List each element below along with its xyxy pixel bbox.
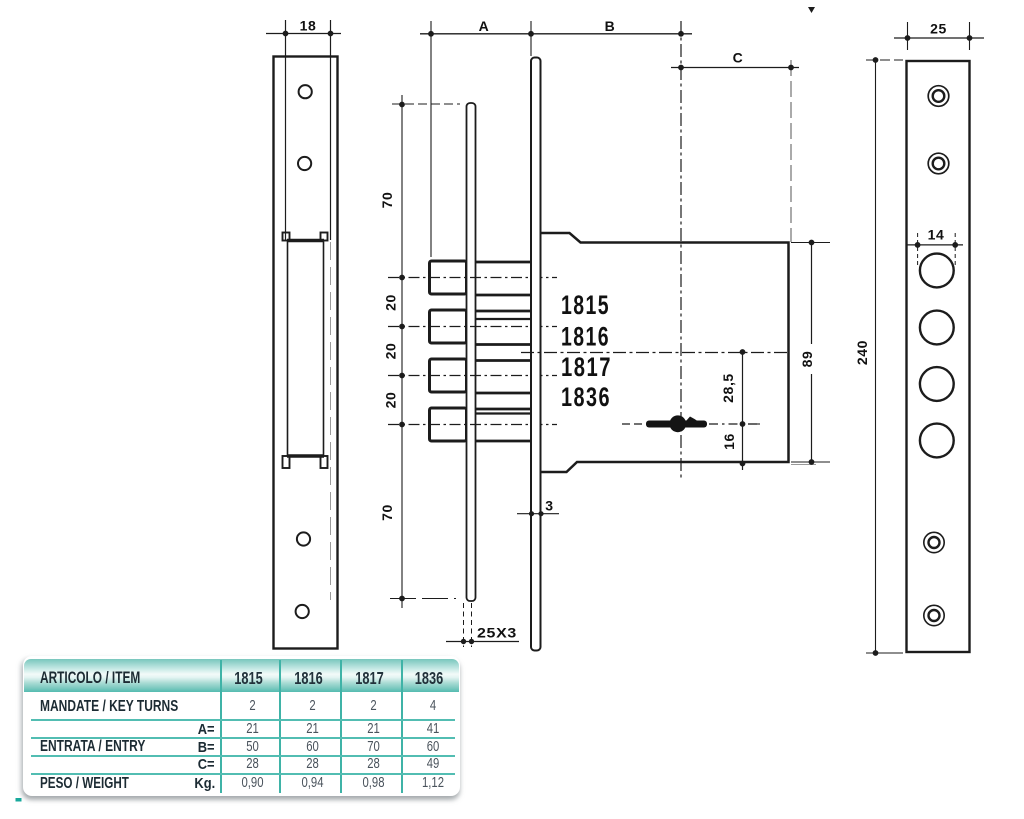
dimension 3 tick line [517, 513, 559, 515]
keyhole horizontal centerline [622, 423, 757, 425]
strike cutout bottom-right tab [321, 456, 328, 468]
right plate countersunk hole bottom2 [924, 605, 944, 625]
dimension 28,5 and 16 extension line [742, 352, 744, 470]
tick dots 28,5 and 16 [740, 349, 746, 466]
left plate screw hole top2 [298, 157, 311, 170]
dimension 18 line [266, 33, 341, 35]
sublabel C= [198, 756, 215, 773]
values row peso [229, 775, 275, 791]
lock body outline [541, 233, 789, 472]
right plate outline [907, 61, 970, 652]
column separator 2 [279, 660, 281, 793]
row label PESO [40, 775, 129, 793]
dimension 25x3 line [446, 641, 519, 643]
bolt 4 head [430, 408, 467, 441]
bolt 1 head [430, 261, 467, 294]
svg-text:70: 70 [379, 504, 395, 521]
svg-text:70: 70 [379, 192, 395, 209]
left faceplate outer plate [274, 57, 338, 649]
header number 1836 [408, 668, 450, 689]
dimension 240 ticks [866, 60, 903, 653]
left plate screw hole bottom2 [296, 605, 309, 618]
right plate countersunk hole bottom1 [924, 532, 944, 552]
spec table [23, 656, 460, 796]
bolt 1 body lines [467, 262, 532, 295]
bolt 4 inner lever line [476, 412, 532, 414]
svg-text:240: 240 [854, 340, 870, 365]
bolt 4 centerline [388, 424, 557, 426]
dimension 14 arrows [915, 242, 958, 248]
svg-text:C: C [733, 50, 744, 66]
dimension A-B line [420, 33, 692, 35]
right plate countersunk hole top1 [928, 86, 949, 107]
svg-text:1817: 1817 [561, 352, 612, 382]
column separator 3 [340, 660, 342, 793]
svg-text:25: 25 [930, 21, 947, 37]
bolt 3 centerline [388, 375, 557, 377]
header number 1817 [347, 668, 392, 689]
svg-text:1815: 1815 [561, 290, 610, 320]
short tick right of key dot [748, 423, 760, 425]
header number 1815 [227, 668, 270, 689]
dimension 25 extension lines [908, 22, 970, 50]
chain tick top [392, 103, 460, 105]
bolt 2 head [430, 310, 467, 343]
body bottom gray tick [791, 464, 816, 466]
svg-text:A: A [479, 18, 490, 34]
left faceplate inner edge dashed continuation [330, 242, 332, 600]
bolt 4 body lines [467, 409, 532, 441]
teal page mark bottom left [16, 798, 22, 802]
lock faceplate front view [531, 58, 541, 651]
dimension 18 tick dots [283, 31, 334, 37]
svg-text:18: 18 [300, 18, 317, 34]
dimension 14 line [908, 244, 964, 246]
bolt 1 centerline [388, 277, 557, 279]
bolt 3 head [430, 359, 467, 392]
row label ENTRATA [40, 738, 145, 756]
dimension 3 dots [529, 511, 544, 516]
header number 1816 [286, 668, 331, 689]
svg-text:1816: 1816 [561, 322, 610, 352]
bolt 2 body lines [467, 311, 532, 345]
bolt 2 inner lever line [476, 318, 532, 320]
keyhole vertical centerline [680, 21, 682, 478]
values row C [229, 756, 275, 772]
small arrow mark top right [808, 7, 815, 13]
svg-text:14: 14 [928, 227, 945, 243]
sublabel A= [198, 721, 215, 738]
left dimension chain line [401, 95, 403, 608]
svg-text:89: 89 [799, 351, 815, 368]
row line 3 [31, 755, 455, 757]
dimension 89 line [811, 243, 813, 463]
sublabel Kg. [194, 775, 215, 792]
bolt 2 centerline [388, 326, 557, 328]
svg-text:20: 20 [383, 343, 399, 360]
table header band [24, 659, 459, 692]
row line 2 [31, 737, 455, 739]
header label ARTICOLO [40, 669, 140, 688]
extension line C to body edge [790, 60, 792, 242]
key bit symbol [646, 415, 707, 432]
left faceplate inner edge line right [330, 20, 332, 240]
dimension 25 line right plate [894, 37, 984, 39]
svg-text:B: B [605, 18, 616, 34]
strike cutout top-right tab [321, 233, 328, 241]
bolt 3 body lines [467, 361, 532, 394]
svg-text:28,5: 28,5 [720, 373, 736, 403]
column separator 4 [401, 660, 403, 793]
svg-text:20: 20 [383, 294, 399, 311]
chain tick bottom [390, 598, 456, 600]
dimension C tick dots [678, 65, 794, 71]
dimension C line [671, 67, 799, 69]
right plate countersunk hole top2 [928, 153, 949, 174]
dimension 25x3 dots [461, 639, 474, 644]
strike cutout bottom-left tab [283, 456, 290, 468]
dimension 25 dots [905, 35, 973, 41]
values row A [229, 721, 275, 737]
left plate screw hole top1 [299, 85, 312, 98]
right plate large hole 2 [920, 311, 954, 345]
svg-text:3: 3 [545, 498, 553, 514]
right plate large hole 3 [920, 367, 954, 401]
left faceplate inner edge line left [285, 20, 287, 240]
left plate screw hole bottom1 [297, 532, 310, 545]
row line 4 [31, 773, 455, 775]
dimension 14 extension dashes [918, 233, 956, 268]
extension line bolt front [430, 21, 432, 257]
25x3 extension dashes [464, 603, 472, 647]
right plate large hole 4 [920, 424, 954, 458]
extension line faceplate top [530, 21, 532, 56]
dimension 89 tick dots [809, 240, 815, 465]
body horizontal centerline [521, 352, 790, 354]
dimension 240 dots [873, 57, 879, 656]
svg-text:20: 20 [383, 392, 399, 409]
dimension A-B tick dots [428, 31, 684, 37]
chain tick dots [399, 102, 405, 602]
row label MANDATE [40, 698, 178, 716]
column separator 1 [220, 660, 222, 793]
strike cutout top-left tab [283, 233, 290, 241]
sublabel B= [198, 739, 215, 756]
values row B [229, 739, 275, 755]
dimension 89 ticks [791, 243, 830, 463]
right plate large hole 1 [920, 254, 954, 288]
svg-text:16: 16 [721, 433, 737, 450]
strike cutout rectangle [287, 241, 324, 457]
svg-text:25X3: 25X3 [477, 625, 517, 641]
dimension 240 line [875, 60, 877, 653]
svg-text:1836: 1836 [561, 382, 611, 412]
row line 1 [31, 719, 455, 721]
flat bar 25x3 [467, 103, 476, 601]
values row mandate [229, 698, 275, 714]
